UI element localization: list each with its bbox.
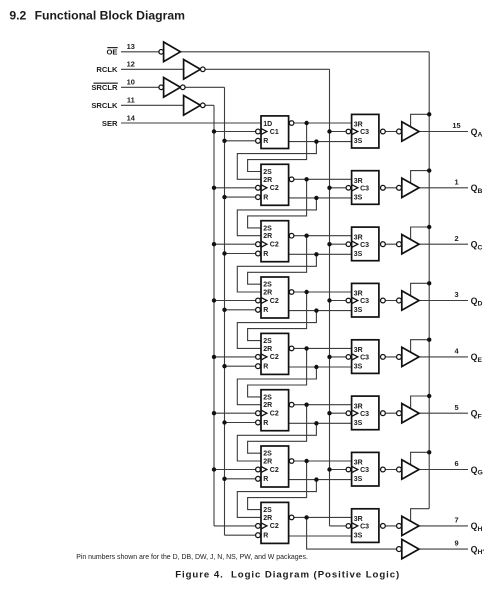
svg-text:6: 6 <box>454 459 458 468</box>
svg-text:Pin numbers shown are for the: Pin numbers shown are for the D, DB, DW,… <box>76 554 308 561</box>
svg-text:2R: 2R <box>263 177 272 184</box>
svg-text:R: R <box>263 138 268 145</box>
svg-text:2R: 2R <box>263 346 272 353</box>
svg-text:3S: 3S <box>354 420 363 427</box>
svg-text:2R: 2R <box>263 290 272 297</box>
svg-text:R: R <box>263 194 268 201</box>
svg-text:2R: 2R <box>263 459 272 466</box>
svg-text:R: R <box>263 533 268 540</box>
svg-text:3S: 3S <box>354 194 363 201</box>
svg-text:12: 12 <box>127 60 135 69</box>
svg-text:2S: 2S <box>263 451 272 458</box>
svg-text:9: 9 <box>454 539 458 548</box>
svg-text:3S: 3S <box>354 307 363 314</box>
svg-text:3S: 3S <box>354 138 363 145</box>
svg-text:7: 7 <box>454 516 458 525</box>
svg-text:RCLK: RCLK <box>96 65 118 74</box>
svg-text:1D: 1D <box>263 121 272 128</box>
svg-text:C3: C3 <box>360 185 369 192</box>
svg-text:3S: 3S <box>354 364 363 371</box>
svg-text:3S: 3S <box>354 533 363 540</box>
svg-text:3S: 3S <box>354 251 363 258</box>
svg-text:C3: C3 <box>360 411 369 418</box>
svg-text:3S: 3S <box>354 476 363 483</box>
svg-text:R: R <box>263 420 268 427</box>
svg-text:C2: C2 <box>270 467 279 474</box>
svg-text:C2: C2 <box>270 523 279 530</box>
svg-text:2S: 2S <box>263 282 272 289</box>
svg-text:SER: SER <box>102 119 118 128</box>
svg-text:3R: 3R <box>354 460 363 467</box>
svg-text:2R: 2R <box>263 515 272 522</box>
svg-text:11: 11 <box>127 96 135 105</box>
svg-text:2S: 2S <box>263 507 272 514</box>
svg-text:OE: OE <box>107 48 118 57</box>
svg-text:R: R <box>263 307 268 314</box>
svg-text:C3: C3 <box>360 129 369 136</box>
svg-text:SRCLR: SRCLR <box>91 83 118 92</box>
svg-text:C1: C1 <box>270 129 279 136</box>
svg-text:1: 1 <box>454 177 458 186</box>
svg-text:Figure 4. Logic Diagram (Posi: Figure 4. Logic Diagram (Positive Logic) <box>175 569 400 580</box>
svg-text:2S: 2S <box>263 225 272 232</box>
svg-text:3R: 3R <box>354 178 363 185</box>
svg-text:C2: C2 <box>270 411 279 418</box>
svg-text:C2: C2 <box>270 298 279 305</box>
svg-text:2S: 2S <box>263 394 272 401</box>
svg-text:9.2Functional Block Diagram: 9.2Functional Block Diagram <box>9 8 185 22</box>
svg-text:3R: 3R <box>354 347 363 354</box>
svg-text:R: R <box>263 251 268 258</box>
svg-text:14: 14 <box>127 113 136 122</box>
svg-text:C3: C3 <box>360 524 369 531</box>
svg-text:2S: 2S <box>263 338 272 345</box>
svg-text:15: 15 <box>452 121 460 130</box>
svg-text:3R: 3R <box>354 122 363 129</box>
svg-text:R: R <box>263 364 268 371</box>
svg-text:C3: C3 <box>360 467 369 474</box>
svg-text:13: 13 <box>127 42 135 51</box>
svg-text:SRCLK: SRCLK <box>91 101 118 110</box>
svg-text:2R: 2R <box>263 402 272 409</box>
svg-text:C3: C3 <box>360 242 369 249</box>
svg-text:C2: C2 <box>270 354 279 361</box>
svg-text:10: 10 <box>127 78 135 87</box>
svg-text:3R: 3R <box>354 516 363 523</box>
svg-text:C2: C2 <box>270 242 279 249</box>
svg-text:3R: 3R <box>354 403 363 410</box>
svg-text:C3: C3 <box>360 355 369 362</box>
svg-text:5: 5 <box>454 403 458 412</box>
svg-text:3: 3 <box>454 290 458 299</box>
svg-text:3R: 3R <box>354 234 363 241</box>
svg-text:2: 2 <box>454 234 458 243</box>
svg-text:2R: 2R <box>263 233 272 240</box>
svg-text:C3: C3 <box>360 298 369 305</box>
svg-text:2S: 2S <box>263 169 272 176</box>
svg-text:R: R <box>263 476 268 483</box>
svg-text:C2: C2 <box>270 185 279 192</box>
svg-text:3R: 3R <box>354 291 363 298</box>
